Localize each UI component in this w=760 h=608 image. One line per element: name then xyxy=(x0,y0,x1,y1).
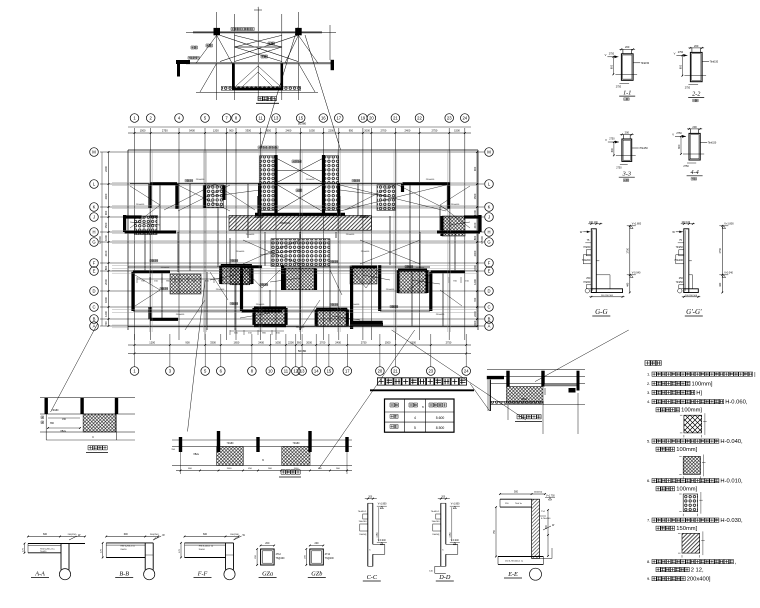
svg-text:1650: 1650 xyxy=(265,129,271,133)
svg-text:C: C xyxy=(92,305,95,310)
plan axis grid lines xyxy=(100,151,484,153)
svg-text:2750: 2750 xyxy=(162,129,168,133)
bottom detail C-C xyxy=(367,503,369,566)
svg-text:14: 14 xyxy=(314,369,319,374)
plan shear walls (thick) xyxy=(150,182,177,185)
svg-text:H-0.040,: H-0.040, xyxy=(720,439,743,445)
svg-text:H-0.010,: H-0.010, xyxy=(720,479,743,485)
svg-text:3300: 3300 xyxy=(245,129,251,133)
svg-text:3.: 3. xyxy=(647,390,650,395)
svg-text:2750: 2750 xyxy=(446,341,452,345)
svg-text:V-0.040: V-0.040 xyxy=(632,271,641,274)
svg-text:200(250): 200(250) xyxy=(68,534,77,536)
svg-text:2750: 2750 xyxy=(678,51,684,54)
svg-text:1500: 1500 xyxy=(104,222,108,228)
svg-text:2700: 2700 xyxy=(381,129,387,133)
svg-text:250x600: 250x600 xyxy=(236,251,245,253)
svg-text:22: 22 xyxy=(417,116,422,121)
svg-text:800: 800 xyxy=(104,265,108,270)
svg-text:7thk150: 7thk150 xyxy=(708,141,717,144)
svg-text:440: 440 xyxy=(719,282,722,287)
svg-text:2750: 2750 xyxy=(616,85,622,88)
svg-text:900: 900 xyxy=(473,166,477,171)
svg-text:21: 21 xyxy=(393,369,398,374)
svg-text:E-E: E-E xyxy=(507,571,518,578)
svg-text:1500: 1500 xyxy=(410,341,416,345)
svg-text:V: V xyxy=(674,51,676,55)
svg-text:J: J xyxy=(93,215,95,220)
svg-text:17000: 17000 xyxy=(480,236,484,244)
svg-text:7thk150: 7thk150 xyxy=(639,147,648,150)
svg-text:4T12: 4T12 xyxy=(325,554,331,556)
svg-text:1750: 1750 xyxy=(627,247,630,253)
svg-text:16: 16 xyxy=(321,116,326,121)
right axis bubbles xyxy=(485,148,494,157)
svg-text:4: 4 xyxy=(414,416,416,420)
roof machine-room framing detail xyxy=(216,12,218,100)
svg-text:1200: 1200 xyxy=(213,129,219,133)
svg-text:1050: 1050 xyxy=(275,341,281,345)
svg-text:3300: 3300 xyxy=(210,341,216,345)
left axis bubbles xyxy=(90,148,99,157)
svg-text:2700: 2700 xyxy=(320,341,326,345)
svg-text:2750: 2750 xyxy=(609,138,615,141)
svg-text:4T12: 4T12 xyxy=(276,554,282,556)
svg-text:V: V xyxy=(672,132,674,136)
svg-text:%: % xyxy=(262,460,264,462)
svg-text:600: 600 xyxy=(611,148,614,153)
svg-text:+: + xyxy=(257,5,259,9)
svg-text:800: 800 xyxy=(473,235,477,240)
svg-text:H: H xyxy=(487,230,490,235)
svg-text:G-G: G-G xyxy=(595,308,607,316)
svg-text:20: 20 xyxy=(369,116,374,121)
svg-text:21: 21 xyxy=(393,116,398,121)
svg-text:900: 900 xyxy=(185,341,190,345)
svg-text:B: B xyxy=(488,317,491,322)
svg-text:2200: 2200 xyxy=(288,341,294,345)
storey table xyxy=(385,399,455,432)
svg-text:1650: 1650 xyxy=(234,341,240,345)
svg-text:1500: 1500 xyxy=(385,341,391,345)
svg-text:K: K xyxy=(488,205,491,210)
notes header xyxy=(645,361,661,366)
svg-text:2 12,: 2 12, xyxy=(691,567,704,573)
svg-text:2200: 2200 xyxy=(104,166,108,172)
svg-text:600: 600 xyxy=(678,144,681,149)
core X-bracing in plan xyxy=(276,158,324,183)
svg-text:1500: 1500 xyxy=(140,129,146,133)
svg-text:7thk50: 7thk50 xyxy=(583,281,591,284)
svg-text:600: 600 xyxy=(124,533,129,536)
svg-text:2400: 2400 xyxy=(104,193,108,199)
svg-text:3-3: 3-3 xyxy=(622,170,631,177)
svg-text:F-F: F-F xyxy=(197,571,208,578)
svg-text:B: B xyxy=(93,317,96,322)
svg-text:250x600: 250x600 xyxy=(351,304,360,306)
svg-text:V-0.040: V-0.040 xyxy=(724,271,733,274)
svg-text:1500: 1500 xyxy=(473,193,477,199)
svg-text:2.: 2. xyxy=(647,381,650,386)
svg-text:24: 24 xyxy=(464,369,469,374)
bottom detail A-A xyxy=(28,536,85,538)
svg-text:200: 200 xyxy=(265,542,270,545)
svg-text:1200: 1200 xyxy=(149,341,155,345)
svg-text:600: 600 xyxy=(43,533,48,536)
svg-text:2750: 2750 xyxy=(685,87,691,90)
svg-text:1200: 1200 xyxy=(473,279,477,285)
svg-text:100 100: 100 100 xyxy=(681,221,690,224)
svg-text:V-0.240: V-0.240 xyxy=(378,540,387,542)
svg-text:2100: 2100 xyxy=(104,250,108,256)
svg-text:50380: 50380 xyxy=(298,122,307,126)
svg-text:1200: 1200 xyxy=(104,311,108,317)
svg-text:500: 500 xyxy=(514,491,519,494)
svg-text:2000: 2000 xyxy=(473,250,477,256)
svg-text:2750: 2750 xyxy=(676,132,682,135)
svg-text:600: 600 xyxy=(203,533,208,536)
svg-text:7thk80: 7thk80 xyxy=(52,409,60,412)
opening reinforcement callout detail left xyxy=(40,397,135,399)
svg-text:1600: 1600 xyxy=(104,297,108,303)
svg-text:M: M xyxy=(92,150,96,155)
svg-text:M: M xyxy=(487,150,491,155)
svg-text:H-0.060,: H-0.060, xyxy=(725,400,748,406)
svg-text:XB2a: XB2a xyxy=(521,398,528,401)
bottom axis bubbles xyxy=(130,367,139,376)
svg-text:200(250): 200(250) xyxy=(534,492,543,494)
svg-text:1-1: 1-1 xyxy=(623,89,631,96)
svg-text:7thk150: 7thk150 xyxy=(710,60,719,63)
svg-text:700: 700 xyxy=(473,297,477,302)
svg-text:V: V xyxy=(605,53,607,57)
section detail 4-4 xyxy=(689,133,700,160)
svg-text:7thk50: 7thk50 xyxy=(583,246,591,249)
svg-text:|: | xyxy=(754,372,756,378)
svg-text:2750: 2750 xyxy=(361,341,367,345)
svg-text:150 6-7thk200-1 1a: 150 6-7thk200-1 1a xyxy=(505,560,524,563)
svg-text:H: H xyxy=(92,230,95,235)
svg-text:A: A xyxy=(488,324,491,329)
svg-text:GZa: GZa xyxy=(262,571,273,578)
svg-text:7thk200: 7thk200 xyxy=(432,520,441,523)
svg-text:T6@200: T6@200 xyxy=(276,558,286,560)
svg-text:200(250): 200(250) xyxy=(150,534,159,536)
svg-text:250x600: 250x600 xyxy=(361,251,370,253)
svg-text:100mm]: 100mm] xyxy=(692,381,713,387)
svg-text:7thk50: 7thk50 xyxy=(676,246,684,249)
svg-text:D: D xyxy=(92,289,95,294)
svg-text:7thk50: 7thk50 xyxy=(199,548,206,551)
svg-text:250: 250 xyxy=(679,277,684,280)
svg-text:1000: 1000 xyxy=(473,210,477,216)
svg-text:2750: 2750 xyxy=(432,129,438,133)
legend square herringbone xyxy=(684,415,702,433)
top axis bubbles xyxy=(130,114,139,123)
svg-text:5.: 5. xyxy=(647,439,650,444)
svg-text:6-7thk200: 6-7thk200 xyxy=(541,517,551,520)
svg-text:1050: 1050 xyxy=(309,129,315,133)
svg-text:250x600: 250x600 xyxy=(426,179,435,181)
svg-text:9.: 9. xyxy=(647,576,650,581)
svg-text:D: D xyxy=(487,289,490,294)
long leader lines to callout details xyxy=(51,324,98,412)
bottom detail E-E xyxy=(500,498,532,500)
svg-text:250x600: 250x600 xyxy=(246,234,255,236)
small plan annotation texts xyxy=(185,179,193,181)
svg-text:E: E xyxy=(488,269,491,274)
svg-text:15: 15 xyxy=(327,369,332,374)
svg-text:C: C xyxy=(92,435,94,439)
svg-text:200(250): 200(250) xyxy=(230,534,239,536)
svg-text:7thk150: 7thk150 xyxy=(641,62,650,65)
svg-text:2-2: 2-2 xyxy=(692,91,700,98)
svg-text:11: 11 xyxy=(284,369,289,374)
svg-text:GZb: GZb xyxy=(311,571,322,578)
svg-text:23: 23 xyxy=(428,369,433,374)
svg-text:440: 440 xyxy=(627,282,630,287)
svg-text:2000: 2000 xyxy=(364,129,370,133)
svg-text:7thk50]: 7thk50] xyxy=(359,533,367,536)
svg-text:7thk50]: 7thk50] xyxy=(432,533,440,536)
svg-text:7.: 7. xyxy=(647,518,650,523)
svg-text:7thk 6-200-1 1a: 7thk 6-200-1 1a xyxy=(120,545,135,548)
svg-text:G: G xyxy=(92,240,95,245)
svg-text:23: 23 xyxy=(447,116,452,121)
svg-text:900: 900 xyxy=(229,129,234,133)
svg-text:A-A: A-A xyxy=(34,571,45,578)
svg-text:2000: 2000 xyxy=(306,341,312,345)
svg-text:200x400]: 200x400] xyxy=(687,577,711,583)
svg-text:600: 600 xyxy=(610,64,613,69)
svg-text:2750: 2750 xyxy=(683,165,689,168)
svg-text:200: 200 xyxy=(692,125,697,129)
svg-text:250x600: 250x600 xyxy=(136,204,145,206)
svg-text:250x600: 250x600 xyxy=(296,327,305,329)
beam face double lines xyxy=(112,182,478,184)
svg-text:1750: 1750 xyxy=(377,532,379,538)
hatched slab openings: dotted pattern xyxy=(260,156,276,211)
svg-text:H]: H] xyxy=(696,390,702,396)
svg-text:700: 700 xyxy=(104,321,108,326)
svg-text:V+1.750: V+1.750 xyxy=(546,495,555,497)
svg-text:600: 600 xyxy=(679,64,682,69)
svg-text:1750: 1750 xyxy=(450,532,452,538)
section detail G'-G' xyxy=(684,229,689,293)
svg-text:5.600: 5.600 xyxy=(436,416,445,420)
svg-text:2000: 2000 xyxy=(104,279,108,285)
svg-text:7thk 6-200-1 1a: 7thk 6-200-1 1a xyxy=(199,545,214,548)
svg-text:V+1.800: V+1.800 xyxy=(632,222,642,225)
svg-text:7thk50-1: 7thk50-1 xyxy=(431,510,440,513)
svg-text:7thk80: 7thk80 xyxy=(227,442,235,445)
svg-text:250x600: 250x600 xyxy=(436,314,445,316)
svg-text:7thk80: 7thk80 xyxy=(293,442,301,445)
svg-text:250x600: 250x600 xyxy=(176,314,185,316)
svg-text:200: 200 xyxy=(625,45,630,49)
svg-text:200: 200 xyxy=(694,44,699,48)
hatched strengthened slabs: crosshatch pattern xyxy=(230,267,250,285)
slab strengthening callout detail right xyxy=(487,369,585,371)
svg-text:10: 10 xyxy=(268,369,273,374)
svg-text:100 200 500: 100 200 500 xyxy=(685,295,698,297)
svg-text:250x600: 250x600 xyxy=(346,234,355,236)
svg-text:950: 950 xyxy=(349,129,354,133)
svg-text:C-C: C-C xyxy=(367,574,378,581)
left dimension column xyxy=(108,152,110,326)
svg-text:20: 20 xyxy=(378,369,383,374)
svg-text:F: F xyxy=(93,261,96,266)
bottom detail F-F xyxy=(185,536,239,538)
svg-text:7thk50: 7thk50 xyxy=(120,548,127,551)
slab fold diagonal lines in rooms xyxy=(178,185,230,211)
svg-text:250x600: 250x600 xyxy=(196,179,205,181)
svg-text:15: 15 xyxy=(298,116,303,121)
svg-text:1500: 1500 xyxy=(454,129,460,133)
svg-text:200: 200 xyxy=(625,130,630,134)
central corridor diagonal-hatched band xyxy=(229,216,372,231)
plan thin partition lines xyxy=(127,150,129,330)
leader lines from machine-room detail to plan core xyxy=(261,28,298,148)
svg-text:8.500: 8.500 xyxy=(436,426,445,430)
svg-text:250x600: 250x600 xyxy=(296,263,305,265)
svg-text:13: 13 xyxy=(274,116,279,121)
svg-text:V+1.800: V+1.800 xyxy=(724,222,734,225)
section detail 2-2 xyxy=(690,52,702,81)
svg-text:V: V xyxy=(605,138,607,142)
svg-text:D-D: D-D xyxy=(438,574,451,581)
svg-text:2400: 2400 xyxy=(473,320,477,326)
section detail 3-3 xyxy=(622,139,632,161)
svg-text:1750: 1750 xyxy=(719,247,722,253)
svg-text:1500: 1500 xyxy=(227,468,233,470)
svg-text:17: 17 xyxy=(336,116,341,121)
svg-text:200: 200 xyxy=(315,542,320,545)
svg-text:7thk50: 7thk50 xyxy=(40,550,47,553)
svg-text:250x600: 250x600 xyxy=(386,289,395,291)
svg-text:150mm]: 150mm] xyxy=(676,526,697,532)
svg-text:n: n xyxy=(422,405,424,409)
svg-text:4.: 4. xyxy=(647,399,650,404)
svg-text:17: 17 xyxy=(345,369,350,374)
opening reinforcement callout detail middle xyxy=(172,446,352,448)
right dimension column xyxy=(476,152,478,326)
svg-text:2400: 2400 xyxy=(286,129,292,133)
svg-text:V-0.240: V-0.240 xyxy=(451,540,460,542)
svg-text:2100: 2100 xyxy=(473,222,477,228)
svg-text:24: 24 xyxy=(462,116,467,121)
svg-text:2750: 2750 xyxy=(609,52,615,55)
svg-text:13: 13 xyxy=(300,369,305,374)
drawing title xyxy=(378,378,467,385)
svg-text:250x600: 250x600 xyxy=(216,289,225,291)
svg-text:100mm]: 100mm] xyxy=(676,487,697,493)
svg-text:XB2a: XB2a xyxy=(60,431,66,433)
svg-text:250: 250 xyxy=(586,277,591,280)
svg-text:2750: 2750 xyxy=(616,166,622,169)
svg-text:100 100: 100 100 xyxy=(589,221,598,224)
svg-text:100 200 500: 100 200 500 xyxy=(601,295,614,297)
plan leader lines xyxy=(214,190,260,196)
svg-text:7thk50: 7thk50 xyxy=(676,281,684,284)
svg-text:C: C xyxy=(487,305,490,310)
svg-text:250x600: 250x600 xyxy=(256,304,265,306)
svg-text:1.: 1. xyxy=(647,372,650,377)
svg-text:XB2a: XB2a xyxy=(193,454,199,456)
svg-text:H-0.030,: H-0.030, xyxy=(720,518,743,524)
svg-text:100mm]: 100mm] xyxy=(676,447,697,453)
svg-text:2400: 2400 xyxy=(335,341,341,345)
svg-text:G'-G': G'-G' xyxy=(686,308,702,316)
svg-text:E: E xyxy=(93,269,96,274)
section detail G-G xyxy=(591,229,596,293)
svg-text:F: F xyxy=(488,261,491,266)
bottom detail B-B xyxy=(106,536,158,538)
section detail 1-1 xyxy=(621,54,633,81)
svg-text:5400: 5400 xyxy=(189,129,195,133)
svg-text:250x600: 250x600 xyxy=(416,267,425,269)
svg-text:7thk50-1: 7thk50-1 xyxy=(358,510,367,513)
svg-text:7thk200: 7thk200 xyxy=(359,520,368,523)
svg-text:V+1.800: V+1.800 xyxy=(451,504,460,506)
svg-text:1000: 1000 xyxy=(104,235,108,241)
bottom dimension rows xyxy=(128,344,471,346)
svg-text:950: 950 xyxy=(297,341,302,345)
bottom detail GZa xyxy=(261,549,275,565)
svg-text:17000: 17000 xyxy=(98,236,102,244)
svg-text:19: 19 xyxy=(361,116,366,121)
svg-text:T6@200: T6@200 xyxy=(325,558,335,560)
svg-text:8.: 8. xyxy=(647,559,650,564)
svg-text:5: 5 xyxy=(414,426,416,430)
svg-text:J: J xyxy=(488,215,490,220)
svg-text:250x600: 250x600 xyxy=(161,267,170,269)
svg-text:900: 900 xyxy=(104,210,108,215)
bottom detail GZb xyxy=(310,549,324,565)
svg-text:100mm]: 100mm] xyxy=(681,408,702,414)
svg-text:250x600: 250x600 xyxy=(451,204,460,206)
svg-text:V+1.800: V+1.800 xyxy=(378,504,387,506)
svg-text:2400: 2400 xyxy=(405,129,411,133)
svg-text:250x600: 250x600 xyxy=(306,179,315,181)
svg-text:4-4: 4-4 xyxy=(690,169,698,176)
svg-text:XB2#150: XB2#150 xyxy=(280,221,291,225)
svg-text:K: K xyxy=(93,205,96,210)
svg-text:B-B: B-B xyxy=(119,571,129,578)
svg-text:6.: 6. xyxy=(647,478,650,483)
svg-text:2400: 2400 xyxy=(258,341,264,345)
svg-text:11: 11 xyxy=(258,116,263,121)
bottom detail D-D xyxy=(440,503,442,566)
top dimension row xyxy=(128,132,471,134)
svg-text:2200: 2200 xyxy=(328,129,334,133)
svg-text:7thk 1a: 7thk 1a xyxy=(515,502,523,505)
svg-text:G: G xyxy=(487,240,490,245)
svg-text:2200: 2200 xyxy=(473,311,477,317)
